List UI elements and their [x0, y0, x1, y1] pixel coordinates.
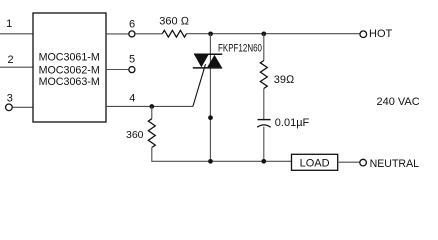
pin 3 terminal circle — [6, 104, 13, 111]
wire pin4 to resistor360 — [151, 107, 153, 119]
svg-text:360: 360 — [126, 129, 144, 141]
svg-text:5: 5 — [129, 54, 135, 66]
node junction top triac — [208, 31, 213, 36]
svg-text:2: 2 — [8, 54, 14, 66]
node junction top 39ohm — [261, 31, 266, 36]
svg-text:MOC3063-M: MOC3063-M — [39, 76, 100, 88]
wire LOAD to NEUTRAL — [338, 161, 360, 163]
wire 39ohm to capacitor — [263, 89, 265, 120]
capacitor C1 bottom plate — [257, 125, 270, 127]
wire pin6 stub — [106, 33, 129, 35]
svg-text:HOT: HOT — [369, 28, 393, 40]
resistor 360 vertical — [148, 119, 155, 148]
wire pin6 circle to resistor — [135, 33, 162, 35]
NEUTRAL terminal circle — [360, 159, 367, 166]
resistor 360 ohm horizontal — [162, 30, 186, 37]
wire pin2 — [0, 66, 33, 68]
resistor 39 ohm — [260, 61, 267, 89]
svg-text:LOAD: LOAD — [300, 158, 330, 170]
op-coupler U1 MOC306x box — [33, 13, 106, 122]
svg-text:0.01µF: 0.01µF — [275, 117, 310, 129]
capacitor C1 top plate — [258, 119, 271, 121]
HOT terminal circle — [360, 31, 367, 38]
svg-text:NEUTRAL: NEUTRAL — [370, 158, 420, 170]
triac Q1 bottom bar — [193, 67, 222, 69]
svg-text:39Ω: 39Ω — [274, 74, 295, 86]
svg-text:FKPF12N60: FKPF12N60 — [218, 42, 262, 54]
svg-text:6: 6 — [129, 19, 135, 31]
wire resistor360 to bottom — [151, 148, 153, 162]
triac Q1 top bar — [194, 53, 222, 55]
pin 6 terminal circle — [129, 31, 135, 37]
node junction pin4 — [149, 104, 154, 109]
svg-text:1: 1 — [6, 18, 12, 30]
triac Q1 right triangle — [207, 55, 222, 67]
svg-text:240 VAC: 240 VAC — [377, 96, 420, 108]
wire pin1 — [0, 33, 33, 35]
node junction bottom triac — [208, 159, 213, 164]
svg-text:MOC3061-M: MOC3061-M — [39, 52, 100, 64]
LOAD box — [292, 154, 338, 170]
triac Q1 left triangle — [194, 55, 208, 68]
svg-text:4: 4 — [129, 93, 135, 105]
wire capacitor to bottom — [263, 127, 265, 162]
wire triac vertical — [209, 34, 211, 162]
wire pin4 — [106, 105, 193, 107]
triac Q1 gate lead — [193, 64, 206, 106]
svg-text:360 Ω: 360 Ω — [159, 15, 189, 27]
pin 5 terminal circle — [129, 67, 135, 73]
wire 39ohm branch top — [263, 34, 265, 61]
wire bottom rail — [151, 160, 291, 162]
node junction bottom cap — [261, 159, 266, 164]
wire pin5 stub — [106, 69, 129, 71]
wire resistor to HOT — [187, 33, 360, 35]
svg-text:MOC3062-M: MOC3062-M — [39, 64, 100, 76]
node junction triac mid — [208, 115, 213, 120]
wire pin3 — [13, 106, 33, 108]
svg-text:3: 3 — [7, 92, 13, 104]
